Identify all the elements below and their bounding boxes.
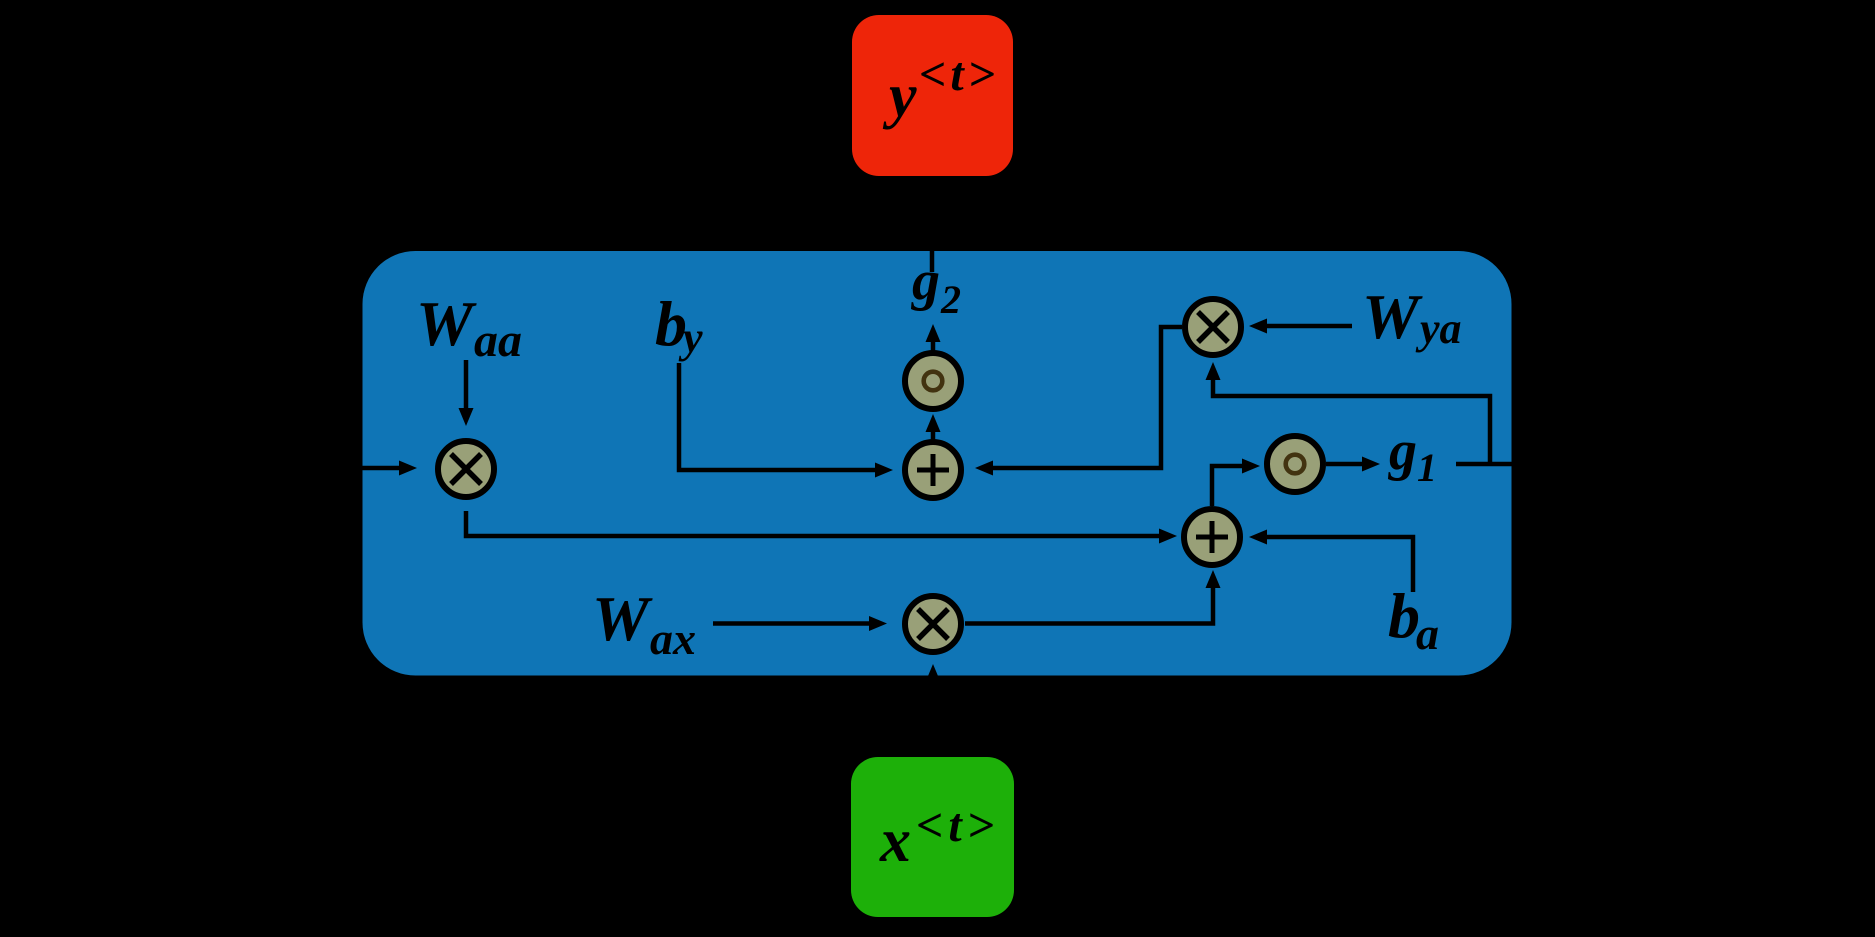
wire g1 output to a<t>: [1456, 462, 1555, 467]
svg-text:W: W: [1362, 281, 1423, 352]
plus P2 (sum for a path): [1184, 509, 1240, 565]
label g_2: [910, 250, 961, 322]
wire W_ya into M2: [1267, 324, 1352, 329]
svg-text:g: g: [910, 250, 940, 312]
multiply M2 (Wya x a): [1185, 299, 1241, 355]
svg-text:<t>: <t>: [916, 799, 999, 852]
dot-op D1 (apply g2): [905, 353, 961, 409]
svg-text:2: 2: [940, 277, 961, 322]
output box y<t> (red): [852, 15, 1013, 176]
wire W_aa to multiply: [464, 360, 469, 408]
wire b_y down and right into plus P1: [679, 363, 875, 470]
svg-text:a: a: [1416, 608, 1439, 659]
svg-text:x: x: [879, 807, 911, 875]
label W_aa: [416, 288, 522, 367]
svg-text:g: g: [1387, 420, 1417, 482]
svg-text:aa: aa: [474, 314, 522, 367]
multiply M1 (Waa x a): [438, 441, 494, 497]
svg-text:<t>: <t>: [919, 48, 999, 101]
wire dot D1 up to g2: [931, 342, 936, 352]
dot-op D2 (apply g1): [1267, 436, 1323, 492]
svg-text:1: 1: [1417, 445, 1437, 490]
plus P1 (sum for y path): [905, 442, 961, 498]
wire a-output feedback up into M2: [1213, 380, 1490, 464]
svg-text:W: W: [416, 288, 477, 359]
wire M3 right and up into P2: [965, 588, 1213, 624]
wire g2 up to y box: [930, 200, 935, 272]
svg-text:<t−1>: <t−1>: [128, 389, 244, 440]
wire a<t-1> input into cell: [240, 466, 399, 471]
wire b_a up and left into P2: [1267, 537, 1413, 592]
input box x<t> (green): [851, 757, 1014, 917]
wire D2 to g1: [1326, 462, 1362, 467]
wire M1 down and right to plus P2: [466, 511, 1159, 536]
label W_ya: [1362, 281, 1462, 353]
label b_y: [655, 288, 703, 362]
wire plus P1 up to dot D1: [931, 432, 936, 442]
multiply M3 (Wax x x): [905, 596, 961, 652]
svg-text:ya: ya: [1415, 304, 1462, 353]
RNN cell body (blue rounded box): [363, 251, 1512, 676]
wire W_ax into M3: [713, 621, 869, 626]
wire P2 up and right into D2: [1212, 466, 1242, 506]
svg-text:a: a: [95, 407, 125, 473]
wire x<t> up into M3: [931, 682, 936, 757]
label y^<t>: [882, 48, 999, 130]
wire M2 out left and down into plus P1: [993, 327, 1182, 468]
label x^<t>: [879, 799, 999, 875]
svg-text:<t>: <t>: [1673, 384, 1738, 435]
svg-text:W: W: [592, 583, 653, 654]
svg-text:a: a: [1640, 402, 1670, 468]
label W_ax: [592, 583, 696, 664]
label g_1: [1387, 420, 1437, 490]
label b_a: [1388, 580, 1439, 659]
svg-text:ax: ax: [650, 613, 696, 664]
